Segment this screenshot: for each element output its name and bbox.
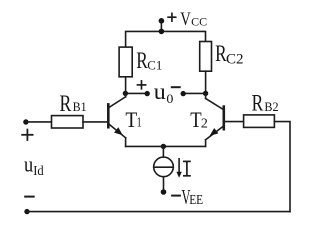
wire input to RB1 <box>26 121 52 123</box>
label RC2 <box>215 41 243 68</box>
svg-text:V: V <box>180 10 191 30</box>
label RB2 <box>252 91 279 116</box>
wire u0 minus stub <box>183 92 205 94</box>
node input plus terminal dot <box>23 119 28 124</box>
node emitter rail center dot <box>161 144 166 149</box>
wire u0 plus stub <box>125 92 147 94</box>
node u0 plus terminal dot <box>145 91 150 96</box>
label VCC <box>180 10 207 30</box>
svg-text:1: 1 <box>137 114 142 129</box>
label RC1 <box>136 48 162 73</box>
svg-text:R: R <box>60 91 72 116</box>
arrow current direction <box>176 159 181 178</box>
svg-text:C2: C2 <box>226 52 244 68</box>
resistor RB2 <box>244 115 275 128</box>
svg-text:C1: C1 <box>147 58 162 72</box>
svg-text:B1: B1 <box>73 100 87 114</box>
resistor RC2 <box>200 42 212 72</box>
svg-text:B2: B2 <box>264 100 278 114</box>
node T1 collector junction dot <box>123 91 128 96</box>
label plus sign input <box>22 130 32 140</box>
wire VCC stub <box>160 21 162 31</box>
node T2 collector junction dot <box>203 91 208 96</box>
node VCC terminal dot <box>159 18 165 24</box>
label minus sign u0 <box>172 86 180 88</box>
label T1 <box>125 107 141 132</box>
transistor T1 <box>108 93 125 146</box>
wire bottom return <box>27 211 290 213</box>
node VCC rail junction dot <box>159 29 165 35</box>
resistor RB1 <box>52 116 84 128</box>
wire current source to VEE <box>163 177 165 192</box>
svg-text:u: u <box>154 79 167 104</box>
node VEE terminal dot <box>161 189 167 195</box>
wire emitter rail <box>126 145 206 147</box>
transistor T2 <box>206 93 224 146</box>
label I current <box>183 161 191 175</box>
svg-text:Id: Id <box>33 163 44 178</box>
current source I circle <box>154 157 174 177</box>
wire RC2 bottom lead <box>205 71 207 93</box>
wire rail to current source <box>162 146 164 157</box>
node u0 minus terminal dot <box>181 91 186 96</box>
svg-text:EE: EE <box>189 193 203 208</box>
svg-text:CC: CC <box>191 14 207 28</box>
resistor RC1 <box>119 47 132 77</box>
wire RB1 to T1 base <box>83 121 108 123</box>
svg-text:u: u <box>24 152 33 177</box>
label plus sign VCC <box>168 13 176 21</box>
svg-text:0: 0 <box>166 92 173 106</box>
label RB1 <box>60 91 87 116</box>
label plus sign u0 <box>138 81 146 89</box>
node input minus terminal dot <box>24 209 29 214</box>
wire T2 base to RB2 <box>225 121 244 123</box>
label minus sign input <box>25 196 34 198</box>
label VEE <box>182 185 204 209</box>
wire RB2 to right down corner <box>274 122 290 212</box>
svg-text:R: R <box>252 91 264 116</box>
label minus sign VEE <box>172 195 180 197</box>
wire RC1 bottom lead <box>125 77 127 94</box>
label u0 <box>154 79 174 106</box>
label T2 <box>190 107 208 132</box>
wire top VCC rail <box>126 31 206 47</box>
label uId <box>24 152 44 178</box>
svg-text:2: 2 <box>201 115 208 130</box>
